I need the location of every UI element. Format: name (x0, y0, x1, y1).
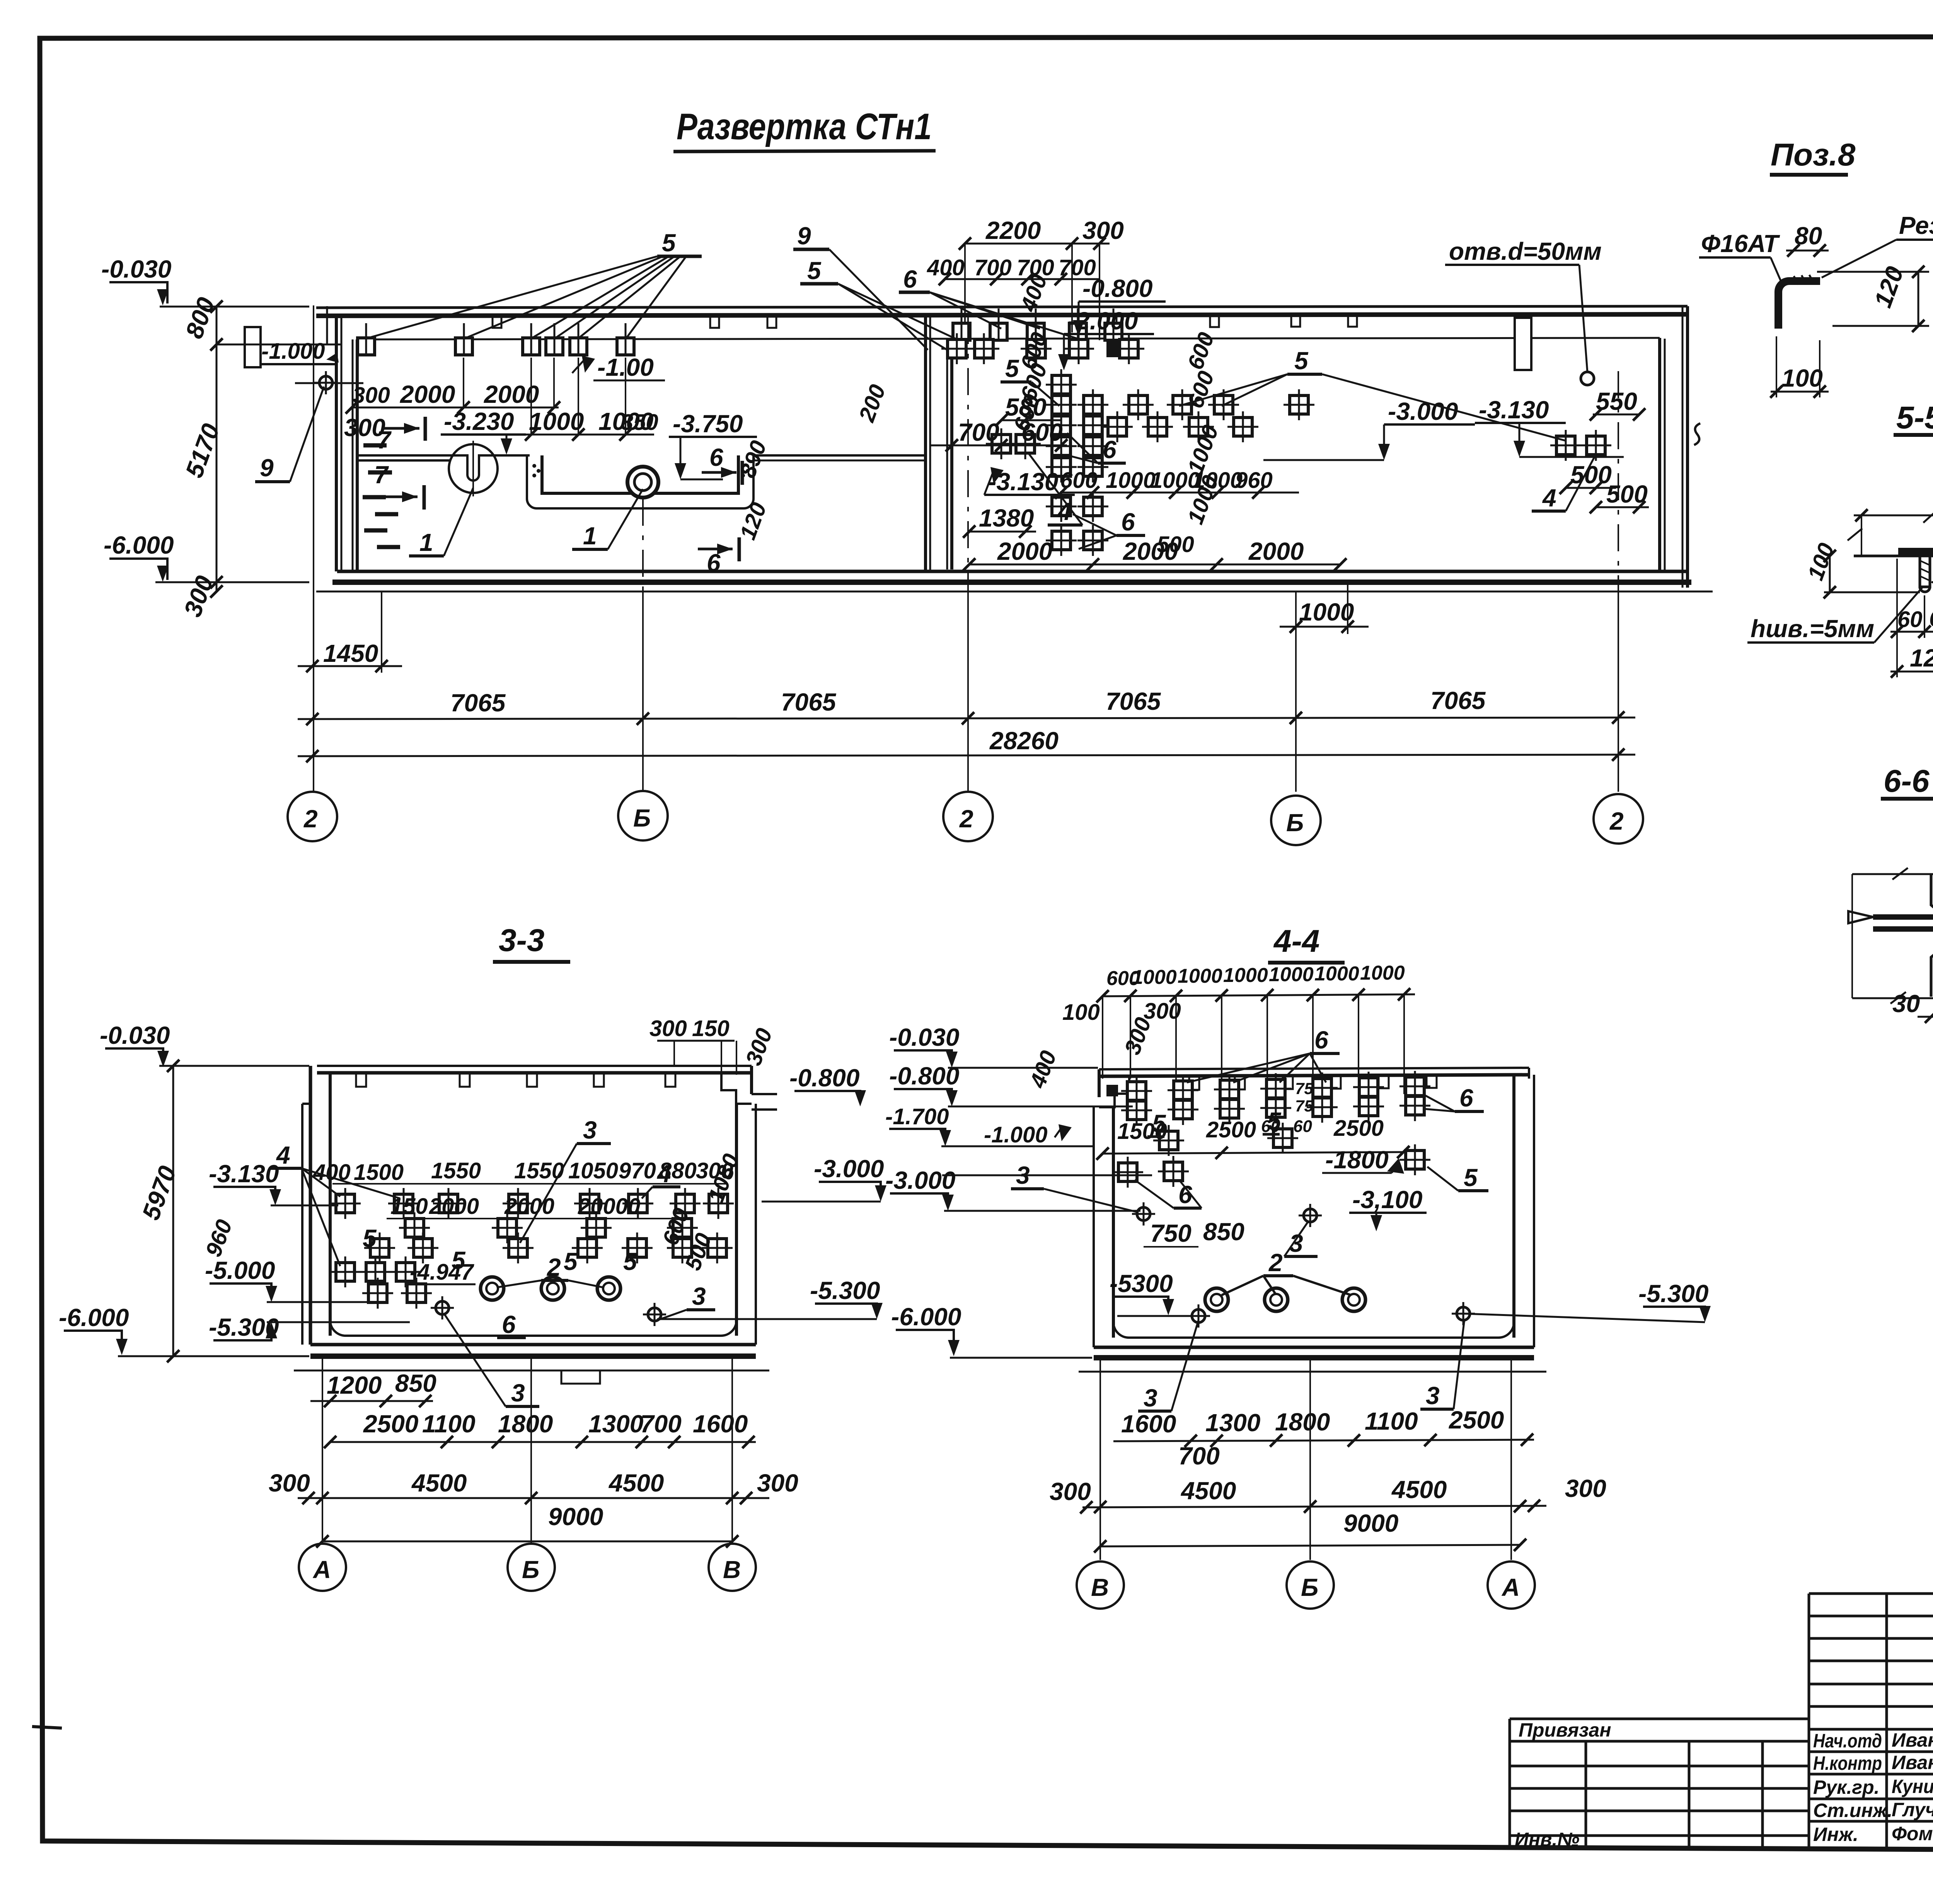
svg-text:300: 300 (269, 1469, 310, 1497)
svg-text:3: 3 (1144, 1384, 1157, 1412)
svg-text:120: 120 (1910, 644, 1933, 672)
svg-text:6: 6 (707, 549, 721, 577)
svg-text:4-4: 4-4 (1273, 924, 1320, 959)
hole d=50 (1581, 372, 1594, 385)
svg-text:5: 5 (807, 257, 822, 285)
svg-text:5: 5 (1464, 1164, 1478, 1191)
svg-text:9: 9 (260, 454, 274, 482)
bottom line of whole block (1510, 1848, 1933, 1850)
svg-text:Нач.отд: Нач.отд (1813, 1730, 1882, 1752)
left wall + step (1098, 1069, 1101, 1097)
svg-text:Иванов: Иванов (1892, 1752, 1933, 1773)
svg-text:Ф16АТ: Ф16АТ (1701, 230, 1780, 257)
svg-text:1000: 1000 (1132, 966, 1177, 989)
svg-text:970: 970 (619, 1158, 656, 1183)
water level dashes (363, 445, 400, 547)
bottom line with break (1852, 997, 1933, 999)
svg-text:1000: 1000 (1299, 598, 1354, 626)
svg-text:2000: 2000 (1248, 537, 1304, 565)
svg-text:7: 7 (377, 426, 392, 454)
svg-text:7065: 7065 (1430, 687, 1486, 714)
svg-text:Развертка СТн1: Развертка СТн1 (677, 106, 932, 147)
svg-text:350: 350 (621, 410, 658, 435)
svg-text:2000: 2000 (997, 537, 1052, 565)
svg-text:1000: 1000 (1314, 963, 1359, 985)
svg-text:5: 5 (1152, 1110, 1166, 1137)
svg-text:1000: 1000 (1178, 965, 1222, 987)
svg-text:1: 1 (419, 528, 433, 556)
roof top line (316, 306, 1688, 308)
svg-text:300: 300 (1144, 999, 1181, 1024)
svg-text:-0.800: -0.800 (789, 1064, 859, 1092)
svg-text:Куницевич: Куницевич (1892, 1776, 1933, 1797)
svg-text:6: 6 (1121, 508, 1135, 536)
svg-text:850: 850 (395, 1369, 436, 1397)
left wall (335, 316, 338, 571)
svg-text:2: 2 (547, 1253, 561, 1281)
svg-text:6: 6 (1459, 1084, 1473, 1112)
svg-text:3: 3 (692, 1282, 706, 1310)
svg-text:1100: 1100 (422, 1410, 476, 1438)
left bay -1.000 floor line + anchor (295, 382, 363, 384)
tank outline (1099, 1068, 1529, 1069)
svg-text:1000: 1000 (1360, 962, 1405, 984)
svg-text:5-5: 5-5 (1896, 400, 1933, 435)
small rect below tank (561, 1370, 600, 1384)
120 dim right (1817, 271, 1929, 273)
svg-text:7065: 7065 (450, 689, 506, 717)
3 labels with circles (1132, 1202, 1155, 1226)
svg-text:100: 100 (1062, 1000, 1100, 1025)
svg-text:1800: 1800 (1275, 1408, 1330, 1436)
svg-text:-6.000: -6.000 (104, 531, 174, 559)
svg-text:1: 1 (583, 522, 597, 550)
section mark 7 lower (381, 496, 418, 498)
svg-text:Б: Б (1301, 1573, 1318, 1601)
floor slab bars with hooks (1873, 914, 1933, 920)
bay2 columns of plates (1046, 369, 1077, 400)
svg-text:5: 5 (1294, 347, 1309, 375)
svg-text:28260: 28260 (989, 727, 1059, 755)
svg-text:-5.000: -5.000 (205, 1256, 275, 1284)
svg-text:2: 2 (303, 805, 318, 833)
svg-text:hшв.=5мм: hшв.=5мм (1751, 615, 1874, 643)
svg-text:1600: 1600 (1121, 1410, 1176, 1438)
svg-text:6: 6 (1103, 436, 1117, 464)
svg-text:1000: 1000 (1269, 963, 1314, 986)
svg-text:300: 300 (1050, 1478, 1091, 1505)
svg-text:-3.000: -3.000 (814, 1155, 884, 1183)
pipe in sump (627, 467, 658, 498)
svg-text:2: 2 (1609, 807, 1624, 835)
svg-text:А: А (312, 1556, 331, 1584)
svg-text:-1.000: -1.000 (984, 1122, 1047, 1147)
svg-text:700: 700 (640, 1410, 682, 1438)
left vertical dims 800 5170 300 (216, 305, 218, 591)
dim row 7065 x4 (298, 718, 1635, 719)
svg-text:1050: 1050 (568, 1158, 618, 1183)
svg-text:2200: 2200 (985, 216, 1041, 244)
svg-text:Ст.инж.: Ст.инж. (1813, 1800, 1892, 1821)
plates grid (330, 1188, 361, 1219)
svg-text:300: 300 (757, 1469, 798, 1497)
svg-text:7065: 7065 (781, 688, 837, 716)
right wall (1512, 1075, 1515, 1338)
svg-text:Б: Б (522, 1556, 539, 1584)
svg-text:-1.700: -1.700 (885, 1104, 949, 1129)
svg-text:30: 30 (1892, 990, 1920, 1018)
svg-text:1100: 1100 (1365, 1407, 1418, 1435)
svg-text:20000: 20000 (578, 1194, 640, 1219)
svg-text:750: 750 (1150, 1219, 1192, 1247)
svg-text:7065: 7065 (1106, 687, 1161, 715)
niche in bay2 (1515, 318, 1531, 370)
svg-text:-5.300: -5.300 (1638, 1280, 1708, 1307)
svg-text:1550: 1550 (431, 1158, 481, 1183)
svg-text:-1.000: -1.000 (261, 339, 325, 364)
bottom slab (337, 570, 1688, 573)
svg-text:-0.030: -0.030 (100, 1021, 170, 1049)
svg-text:Резьба: Резьба (1899, 211, 1933, 239)
svg-text:1300: 1300 (1205, 1409, 1260, 1437)
svg-text:3: 3 (511, 1379, 525, 1407)
svg-text:Глученко: Глученко (1892, 1799, 1933, 1820)
svg-text:Привязан: Привязан (1519, 1719, 1611, 1741)
svg-text:4500: 4500 (1391, 1476, 1447, 1503)
60 60 dims (1896, 559, 1898, 638)
svg-text:Инж.: Инж. (1813, 1824, 1858, 1845)
svg-text:-5.300: -5.300 (810, 1277, 880, 1304)
svg-text:600: 600 (1021, 418, 1063, 446)
right pair plates (1550, 430, 1581, 461)
bay2 embedded plates cluster (953, 309, 970, 341)
svg-text:5: 5 (623, 1248, 638, 1275)
120 dim (1890, 671, 1933, 673)
svg-text:1000: 1000 (529, 407, 584, 435)
svg-text:-6.000: -6.000 (59, 1304, 129, 1331)
svg-text:3: 3 (1426, 1382, 1440, 1410)
svg-text:60: 60 (1897, 607, 1923, 632)
svg-text:960: 960 (1235, 468, 1273, 493)
svg-text:1380: 1380 (979, 504, 1034, 532)
bottom slab (330, 1320, 736, 1336)
svg-text:5: 5 (564, 1248, 578, 1275)
svg-text:75: 75 (1295, 1079, 1313, 1098)
svg-text:2500: 2500 (1449, 1406, 1504, 1434)
partition wall (924, 316, 927, 570)
svg-text:500: 500 (1157, 532, 1194, 557)
wall verticals (1931, 874, 1933, 997)
svg-text:1600: 1600 (693, 1410, 748, 1438)
svg-text:4500: 4500 (608, 1469, 664, 1497)
svg-text:6: 6 (709, 443, 723, 471)
svg-text:-3.000: -3.000 (885, 1166, 955, 1194)
svg-text:1450: 1450 (323, 639, 378, 667)
svg-text:700: 700 (974, 255, 1012, 280)
svg-text:4: 4 (656, 1160, 671, 1188)
svg-text:-3.230: -3.230 (444, 407, 514, 435)
pipes (481, 1277, 504, 1300)
bay2 scattered plates mid (1123, 389, 1154, 420)
svg-text:60: 60 (1929, 606, 1933, 631)
svg-text:-6.000: -6.000 (891, 1303, 961, 1331)
5970 vertical dim (172, 1066, 174, 1356)
svg-text:1500: 1500 (354, 1160, 404, 1185)
sump pit (542, 455, 738, 493)
roof notches (493, 315, 1357, 328)
svg-text:Инв.№: Инв.№ (1515, 1829, 1580, 1850)
svg-text:2500: 2500 (1206, 1117, 1256, 1142)
plates two top rows (1121, 1076, 1152, 1106)
svg-text:4500: 4500 (411, 1469, 467, 1497)
svg-text:550: 550 (1596, 387, 1637, 415)
svg-text:60: 60 (1293, 1117, 1312, 1136)
100 dim left (1829, 556, 1831, 592)
svg-text:5: 5 (1267, 1107, 1282, 1135)
svg-text:В: В (723, 1556, 741, 1584)
axis stems + bubbles (1099, 1359, 1101, 1560)
svg-text:Н.контр: Н.контр (1813, 1752, 1882, 1774)
dim row 28260 (298, 755, 1635, 756)
ceiling line (357, 338, 1660, 339)
svg-text:1300: 1300 (588, 1410, 643, 1438)
svg-text:6: 6 (502, 1311, 516, 1338)
svg-text:В: В (1091, 1573, 1109, 1601)
svg-text:-0.800: -0.800 (889, 1062, 959, 1090)
svg-text:Иванов: Иванов (1892, 1729, 1933, 1751)
left wall (309, 1066, 312, 1345)
svg-text:2500: 2500 (1333, 1116, 1384, 1141)
svg-text:-3.130: -3.130 (209, 1160, 279, 1188)
L anchor bar (1778, 281, 1820, 329)
svg-text:А: А (1501, 1573, 1520, 1601)
svg-text:Б: Б (1286, 809, 1304, 837)
svg-text:7: 7 (374, 461, 389, 489)
axis lines vertical (314, 305, 1618, 792)
svg-text:2500: 2500 (363, 1410, 418, 1438)
bay1 floor -3.230 (357, 454, 450, 457)
bay1 embedded plates row (358, 323, 375, 356)
narrow signature table (1809, 1594, 1933, 1848)
svg-text:3-3: 3-3 (499, 923, 545, 958)
right wall + step (750, 1066, 753, 1094)
svg-text:6: 6 (1314, 1026, 1328, 1054)
svg-text:850: 850 (1203, 1218, 1244, 1246)
svg-text:700: 700 (1178, 1442, 1220, 1470)
1000 dim near hole (1295, 595, 1297, 634)
svg-text:9: 9 (797, 222, 811, 250)
section mark 6 lower (698, 548, 733, 551)
svg-text:1000: 1000 (1106, 468, 1156, 493)
svg-text:2: 2 (959, 805, 973, 833)
svg-text:-0.030: -0.030 (889, 1023, 959, 1051)
svg-text:100: 100 (1781, 364, 1823, 392)
svg-text:-2.000: -2.000 (1068, 307, 1138, 335)
niche outside left wall (245, 327, 261, 367)
svg-text:6: 6 (903, 265, 917, 293)
svg-text:4: 4 (1542, 484, 1556, 512)
svg-text:-0.030: -0.030 (101, 255, 171, 283)
svg-text:3: 3 (583, 1116, 597, 1144)
left привязан box (1510, 1719, 1809, 1848)
svg-text:5: 5 (1005, 355, 1019, 382)
svg-text:6-6: 6-6 (1884, 764, 1930, 799)
plates mid (1153, 1125, 1184, 1156)
svg-text:1000: 1000 (1223, 964, 1268, 987)
section mark 7 upper (383, 427, 419, 430)
svg-text:300: 300 (353, 383, 390, 408)
svg-text:9000: 9000 (548, 1503, 603, 1531)
svg-text:Б: Б (633, 804, 651, 832)
svg-text:отв.d=50мм: отв.d=50мм (1449, 237, 1602, 265)
fold mark tick (32, 1727, 62, 1728)
svg-text:300: 300 (649, 1016, 687, 1041)
right wall (1658, 338, 1661, 570)
svg-text:700: 700 (958, 418, 999, 446)
roof bottom thick line (316, 314, 1688, 316)
svg-text:5: 5 (363, 1224, 377, 1252)
svg-text:2: 2 (1268, 1249, 1283, 1277)
svg-text:Фоменко: Фоменко (1892, 1823, 1933, 1844)
svg-text:-3,100: -3,100 (1352, 1186, 1422, 1214)
svg-text:75: 75 (1295, 1097, 1313, 1115)
detail circle 1 (449, 444, 498, 493)
svg-text:5: 5 (662, 229, 676, 257)
svg-text:-0.800: -0.800 (1082, 274, 1152, 302)
svg-text:-3.750: -3.750 (673, 410, 743, 438)
svg-text:Рук.гр.: Рук.гр. (1813, 1776, 1880, 1798)
break marks (1848, 527, 1933, 540)
svg-text:580: 580 (1005, 393, 1047, 421)
svg-text:300: 300 (1565, 1474, 1606, 1502)
svg-text:-5300: -5300 (1110, 1270, 1173, 1297)
svg-text:9000: 9000 (1343, 1509, 1398, 1537)
svg-text:150: 150 (692, 1016, 730, 1041)
svg-text:4500: 4500 (1180, 1477, 1236, 1505)
pipes (1205, 1288, 1228, 1311)
top line with break (1852, 873, 1933, 875)
svg-text:2000: 2000 (400, 380, 455, 408)
svg-text:2000: 2000 (429, 1194, 479, 1219)
axis bubbles (288, 792, 337, 841)
svg-text:Поз.8: Поз.8 (1771, 137, 1856, 172)
svg-text:-1800: -1800 (1325, 1146, 1389, 1174)
bottom slab (1113, 1322, 1514, 1338)
svg-text:1800: 1800 (498, 1410, 553, 1438)
tank outline (317, 1065, 752, 1067)
axis stems + bubbles (322, 1358, 323, 1544)
svg-text:5: 5 (452, 1246, 466, 1274)
bay2 lower cluster (1046, 491, 1077, 522)
section mark 6 upper (702, 471, 736, 474)
